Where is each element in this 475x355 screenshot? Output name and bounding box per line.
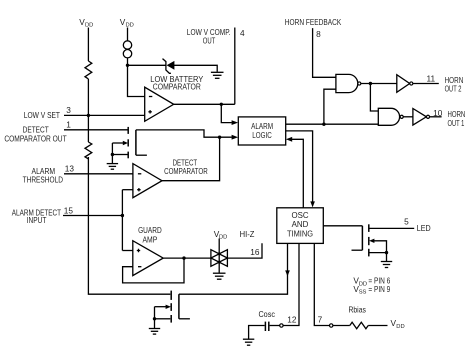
node VDD bias label [391,318,405,330]
transistor Q2 gate plate [361,226,363,250]
ground below Q1 [107,164,118,170]
resistor Rbias [350,322,368,328]
wire pin 3 to LB comparator + input [64,114,145,116]
svg-text:OUT: OUT [203,36,216,46]
wire alarm logic output A to horn nand [286,123,379,125]
node pin 4 LOW V COMP. OUT label [187,27,231,46]
Q3 gate plate [178,294,180,319]
wire Q3 gate stub [179,318,190,320]
svg-text:GUARD: GUARD [138,226,162,235]
U2 plus sign [137,188,140,191]
svg-text:12: 12 [287,315,297,325]
op-amp U2 detect comparator [133,164,162,198]
svg-text:15: 15 [64,205,74,215]
wire Rbias to VDD [368,325,387,327]
inverter U5 triangle [413,109,427,126]
ground below Q2 [381,262,392,268]
block OSC AND TIMING box [277,208,324,244]
svg-text:LED: LED [417,223,431,233]
node NAND1 output junction dot [369,82,372,85]
U2 minus sign [138,173,141,175]
arrow into alarm logic input 1 [232,120,239,125]
U4 output bubble [410,82,413,85]
wire Q2 bulk to ground leg [374,241,387,253]
svg-text:4: 4 [240,28,245,38]
node pin 1 DETECT COMPARATOR OUT label [4,124,66,143]
node pin 3 junction dot [87,114,90,117]
svg-text:OUT 2: OUT 2 [445,84,462,94]
node detect comparator output junction dot [218,136,221,139]
node U3 output junction dot [182,256,185,259]
wire Q3 bulk to ground leg [155,306,167,308]
arrow into alarm logic right edge [286,137,292,142]
arrow on OSC to Q3 wire [285,270,290,276]
wire U2 output up to junction [162,137,220,181]
svg-text:13: 13 [65,164,75,174]
node pin 15 ALARM DETECT INPUT label [12,208,61,225]
op-amp U3 guard amp [133,241,163,276]
ground below Cosc [243,339,254,345]
gate NAND1 body [336,74,358,92]
wire pin 13 to detect comparator - input [64,173,133,175]
svg-text:HI-Z: HI-Z [240,229,255,239]
wire junction down to LB comparator - input [128,65,145,96]
node LOW BATTERY COMPARATOR label [150,75,204,92]
wire Q1 gate to detect comparator output node [136,130,232,137]
wire NAND2 to inverter U5 [403,116,413,118]
arrow into OSC top [310,201,315,207]
svg-text:DD: DD [396,324,404,330]
zener diode D1 anode triangle [167,61,175,70]
wire U5 output pin 10 [430,116,442,118]
resistor R1 [85,61,92,79]
wire junction down to NAND2 input a [370,84,378,112]
svg-text:AND: AND [292,220,309,229]
svg-text:THRESHOLD: THRESHOLD [23,175,63,185]
svg-text:SS: SS [359,290,367,296]
wire capacitor to ground [249,326,265,340]
ground below Q3 [149,329,160,335]
OSC AND TIMING label [287,211,313,238]
svg-text:10: 10 [433,108,443,118]
svg-text:HORN FEEDBACK: HORN FEEDBACK [285,17,342,27]
current source I1 [123,41,131,58]
wire to detect comparator + input [122,189,132,191]
wire input bus vertical [121,190,123,251]
node VDD switch label [214,229,228,241]
ground below switch [213,273,226,279]
node U1 output junction dot [220,103,223,106]
Q1 bulk arrow [123,141,128,145]
wire VDD left down to resistor R1 [87,28,89,62]
wire U1 junction down to alarm logic [221,104,232,122]
wire current source to junction [127,58,129,65]
node VDD right supply label [120,17,134,29]
svg-text:OUT 1: OUT 1 [448,118,465,128]
wire zener to ground [174,65,217,71]
inverter U4 triangle [397,75,410,93]
wire U4 output pin 11 [413,83,439,85]
wire U3 output [163,257,211,259]
svg-text:COMPARATOR OUT: COMPARATOR OUT [4,134,66,144]
U5 output bubble [426,115,429,118]
svg-text:INPUT: INPUT [27,215,47,225]
ground below zener [211,72,224,78]
node pin 15 junction dot [121,214,124,217]
svg-text:5: 5 [404,216,409,226]
wire junction to zener [128,64,166,66]
transistor Q2 channel dashes [368,224,370,256]
wire Q3 gate to OSC [179,243,288,294]
wire OSC bottom to pin 7 [314,243,329,325]
wire alarm logic output B to OSC [286,131,313,202]
wire Q1 bulk to ground leg [112,142,123,144]
node VDD PIN6 VSS PIN9 note [353,276,390,288]
wire Q1 source [112,154,127,156]
svg-text:1: 1 [66,120,71,130]
wire pin 7 to Rbias [333,325,350,327]
svg-text:COMPARATOR: COMPARATOR [164,167,208,176]
svg-text:= PIN 9: = PIN 9 [368,284,390,294]
wire VDD to switch [218,239,220,273]
svg-text:DD: DD [219,234,227,240]
wire switch to HI-Z pin 16 [227,243,262,258]
gate NAND2 body [378,108,399,125]
svg-text:11: 11 [426,74,435,84]
pin 7 open circle [330,324,333,327]
wire OSC to Q2 gate [323,225,362,227]
wire junction up to NAND1 input b [324,89,336,124]
op-amp U1 low battery comparator [145,87,174,121]
wire OSC bottom to pin 12 [283,243,299,325]
wire NAND1 output to inverter [361,83,397,85]
svg-text:16: 16 [250,247,260,257]
block ALARM LOGIC box [238,117,285,145]
svg-text:DD: DD [126,23,134,29]
node Q3 source junction dot [153,317,156,320]
wire pin 4 vertical [234,28,236,105]
svg-text:COMPARATOR: COMPARATOR [153,82,201,91]
U3 plus sign [137,249,140,252]
capacitor Cosc plates [265,322,268,331]
node HORN OUT 2 label [445,75,464,94]
wire Q1 bulk-source vertical [111,143,113,155]
analog switch S1 right triangle [211,250,228,267]
Q3 bulk arrow [166,305,171,309]
wire U1 output to pin 4 line [174,103,235,105]
wire Q1 ground stem [111,155,113,164]
wire R1 to R2 (left bus upper) [87,79,89,142]
resistor R2 [85,142,92,159]
NAND2 output bubble [400,115,403,118]
svg-text:ALARM: ALARM [251,122,273,131]
node HORN OUT 1 label [448,109,466,128]
svg-text:7: 7 [318,315,323,325]
wire Q2 drain to LED pin 5 [369,227,414,229]
wire pin 1 to Q1 drain [64,129,128,131]
zener diode D1 cathode [163,59,171,74]
wire Q3 ground stem [154,319,156,329]
wire Q2 source [369,252,387,254]
svg-text:TIMING: TIMING [287,229,313,238]
svg-text:LOGIC: LOGIC [252,131,272,140]
svg-text:DD: DD [359,281,367,287]
wire Q3 source [155,318,171,320]
arrow into alarm logic input 2 [232,135,239,140]
analog switch S1 left triangle [211,250,228,267]
Q1 gate plate [135,130,137,155]
U1 plus sign [148,110,151,113]
node junction dot on output A [322,123,325,126]
wire left bus lower down and right to Q3 drain [88,157,170,294]
ALARM LOGIC label [251,122,273,140]
wire Q2 gate stub [352,249,363,251]
svg-text:Cosc: Cosc [258,309,275,319]
svg-text:Rbias: Rbias [348,304,366,314]
wire VDD right to current source [127,28,129,41]
transistor Q3 channel dashes [170,291,172,323]
node switch crossing dots [218,252,221,263]
wire to guard amp + input [122,250,132,252]
node DETECT COMPARATOR label [164,159,208,177]
node current source junction dot [126,64,129,67]
transistor Q1 channel dashes [127,127,129,158]
svg-text:LOW V SET: LOW V SET [24,110,60,120]
wire U3 feedback loop [123,258,184,283]
svg-text:DD: DD [85,23,93,29]
U3 minus sign [138,266,141,268]
NAND1 output bubble [358,82,361,85]
svg-text:OSC: OSC [291,211,308,220]
wire pin 12 to capacitor [270,325,280,327]
svg-text:3: 3 [66,105,71,115]
wire pin 8 to NAND1 input a [313,28,336,77]
svg-text:8: 8 [316,29,321,39]
wire Q1 gate stub [136,154,147,156]
wire OSC to alarm logic feedback [292,139,304,208]
svg-text:AMP: AMP [143,236,158,245]
node Q1 source junction dot [111,153,114,156]
U1 minus sign [149,96,152,98]
wire pin 15 to input bus junction [63,215,122,217]
wire Q2 ground stem [386,253,388,262]
pin 12 open circle [280,324,283,327]
node pin 13 ALARM THRESHOLD label [23,166,63,185]
node GUARD AMP label [138,226,162,245]
Q2 bulk arrow [369,239,374,243]
node Q2 source junction dot [385,251,388,254]
node VDD left supply label [79,17,93,29]
wire Q3 bulk-source vertical [154,307,156,319]
